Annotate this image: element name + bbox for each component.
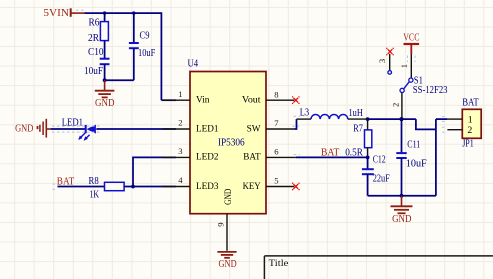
resistor R6: [88, 13, 108, 58]
svg-text:GND: GND: [219, 259, 238, 270]
svg-text:L3: L3: [300, 108, 309, 119]
ground GND3: [217, 252, 237, 270]
no-ERC pin8: [292, 96, 300, 104]
power port VCC: [403, 33, 419, 55]
svg-text:GND: GND: [95, 98, 115, 109]
svg-text:4: 4: [178, 175, 183, 185]
svg-text:1uH: 1uH: [349, 108, 364, 119]
pin 5: [266, 176, 294, 187]
svg-text:R6: R6: [89, 17, 100, 28]
wire L3 right pin: [348, 118, 368, 120]
svg-text:SS-12F23: SS-12F23: [413, 85, 448, 96]
pin 3: [163, 146, 191, 157]
svg-text:5VIN: 5VIN: [43, 8, 69, 19]
svg-text:GND: GND: [15, 124, 34, 135]
net label BAT left: [57, 176, 105, 187]
svg-text:9: 9: [216, 222, 226, 226]
wire 5VIN top: [84, 13, 161, 100]
capacitor C11: [396, 119, 427, 196]
wire C10-C9 bottom: [105, 79, 134, 81]
wire main to JP1 jog: [416, 119, 436, 129]
svg-text:R8: R8: [89, 176, 99, 187]
svg-text:10uF: 10uF: [84, 66, 103, 77]
pin 7: [266, 118, 294, 129]
svg-text:GND: GND: [392, 214, 412, 225]
svg-text:Title: Title: [269, 258, 289, 269]
svg-text:2: 2: [390, 103, 400, 107]
pin 9: [216, 214, 228, 251]
svg-text:LED1: LED1: [62, 118, 83, 129]
svg-text:BAT: BAT: [243, 152, 260, 163]
svg-text:7: 7: [274, 118, 279, 128]
wire to JP1 pin1: [436, 118, 448, 120]
svg-text:GND: GND: [223, 189, 234, 205]
svg-text:IP5306: IP5306: [218, 138, 245, 149]
compile mask dashes: [52, 10, 447, 189]
pin 4: [163, 175, 191, 186]
svg-text:3: 3: [178, 146, 182, 156]
capacitor C9: [129, 13, 156, 80]
junction: [366, 117, 370, 121]
pin 6: [266, 147, 296, 158]
pin JP1-2: [447, 129, 462, 131]
svg-text:JP1: JP1: [462, 139, 474, 150]
inductor L3: [300, 108, 364, 120]
pin 8: [266, 89, 294, 100]
svg-text:8: 8: [274, 89, 278, 99]
svg-text:10uF: 10uF: [406, 159, 427, 170]
net label BAT right + wire pin6: [296, 148, 368, 159]
no-ERC S1 pin3: [386, 48, 394, 56]
svg-text:6: 6: [274, 147, 279, 157]
svg-text:5: 5: [274, 176, 278, 186]
svg-text:SW: SW: [247, 123, 262, 134]
junction: [132, 11, 135, 14]
power port GND left: [15, 119, 51, 138]
svg-text:2: 2: [467, 125, 472, 136]
no-ERC pin5: [292, 183, 300, 191]
ground GND2: [391, 196, 413, 225]
pin 2: [163, 118, 191, 129]
svg-text:Vout: Vout: [242, 95, 261, 106]
svg-text:22uF: 22uF: [373, 174, 390, 185]
switch S1: [377, 54, 448, 119]
title block: [264, 256, 493, 279]
svg-text:BAT: BAT: [462, 98, 479, 109]
wire L3 left stub: [297, 118, 312, 120]
svg-text:1K: 1K: [90, 190, 100, 201]
svg-text:LED2: LED2: [196, 152, 219, 163]
svg-text:1: 1: [178, 89, 182, 99]
svg-text:VCC: VCC: [403, 33, 419, 44]
port 5VIN: [43, 8, 84, 19]
junction: [366, 156, 370, 160]
IC U4: [188, 58, 267, 213]
capacitor C10: [84, 47, 110, 80]
svg-text:R7: R7: [353, 123, 363, 134]
pin 1: [163, 89, 191, 100]
wire JP1 riser: [435, 119, 437, 196]
wire to switch junction: [368, 118, 416, 120]
wire GND-LED: [51, 128, 86, 130]
svg-text:1: 1: [468, 114, 473, 125]
junction: [103, 78, 107, 82]
svg-text:LED3: LED3: [196, 181, 219, 192]
svg-text:KEY: KEY: [243, 181, 261, 192]
svg-text:2R: 2R: [88, 33, 99, 44]
svg-text:C12: C12: [373, 154, 386, 165]
svg-text:C9: C9: [140, 30, 150, 41]
resistor R8: [89, 176, 125, 201]
svg-text:1: 1: [399, 64, 409, 68]
svg-text:C11: C11: [407, 140, 420, 151]
junction: [103, 11, 106, 14]
svg-text:10uF: 10uF: [138, 48, 156, 59]
LED LED1: [62, 118, 96, 141]
svg-text:U4: U4: [188, 58, 199, 69]
svg-text:3: 3: [377, 59, 387, 63]
junction: [400, 194, 404, 198]
junction: [131, 185, 135, 189]
wire GND bus: [368, 195, 436, 197]
svg-text:LED1: LED1: [196, 123, 219, 134]
capacitor C12: [362, 154, 390, 195]
wire SW to L3: [294, 119, 296, 129]
pin JP1-1: [447, 118, 462, 120]
ground GND1: [95, 80, 115, 109]
wire R8 to pins: [124, 157, 176, 186]
junction: [399, 117, 403, 121]
connector JP1: [462, 98, 481, 150]
resistor R7: [345, 119, 372, 158]
svg-text:Vin: Vin: [196, 95, 210, 106]
svg-text:2: 2: [178, 118, 182, 128]
wire LED-pin2: [96, 128, 176, 130]
svg-text:C10: C10: [88, 47, 104, 58]
wire to pin1: [161, 99, 176, 101]
